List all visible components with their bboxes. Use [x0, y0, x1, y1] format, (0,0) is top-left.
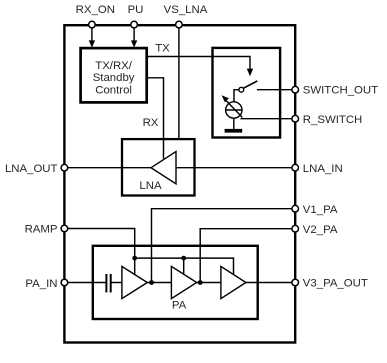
terminal SWITCH_OUT	[292, 86, 299, 93]
wire V2_PA to stage2 node	[200, 229, 295, 283]
svg-text:Standby: Standby	[93, 72, 135, 84]
svg-text:TX: TX	[155, 43, 170, 55]
junction dot bias bus stage2	[181, 256, 186, 261]
wire LNA input from LNA_IN	[176, 167, 295, 169]
PA amp stage 3	[221, 266, 246, 298]
terminal VS_LNA	[176, 21, 183, 28]
terminal PA_IN	[61, 279, 68, 286]
terminal LNA_OUT	[61, 164, 68, 171]
terminal RAMP	[61, 225, 68, 232]
terminal RX_ON	[89, 21, 96, 28]
svg-text:VS_LNA: VS_LNA	[164, 4, 208, 16]
svg-text:LNA_IN: LNA_IN	[303, 163, 343, 175]
wire to ground	[233, 117, 235, 130]
variable element chord	[226, 109, 242, 111]
wire switch pivot to variable element	[234, 90, 240, 102]
LNA box	[122, 139, 195, 195]
outer module boundary box	[64, 25, 295, 342]
terminal V1_PA	[292, 205, 299, 212]
wire RX: control box to LNA amp	[147, 78, 164, 159]
PA box	[93, 246, 258, 319]
PA amp stage 2	[171, 266, 196, 298]
svg-text:RX_ON: RX_ON	[76, 4, 115, 16]
svg-text:PA: PA	[172, 299, 187, 311]
junction dot bias bus stage1	[132, 256, 137, 261]
svg-text:SWITCH_OUT: SWITCH_OUT	[303, 85, 378, 97]
variable element circle	[226, 102, 242, 118]
wire LNA output to LNA_OUT	[64, 167, 151, 169]
svg-text:PA_IN: PA_IN	[25, 278, 57, 290]
terminal V3_PA_OUT	[292, 279, 299, 286]
svg-text:LNA_OUT: LNA_OUT	[5, 163, 58, 175]
svg-text:R_SWITCH: R_SWITCH	[303, 114, 362, 126]
junction dot stage2 output node	[198, 280, 203, 285]
terminal R_SWITCH	[292, 115, 299, 122]
wire fixed contact to SWITCH_OUT	[257, 89, 295, 91]
switch pivot contact	[239, 87, 244, 92]
LNA amp triangle	[151, 152, 176, 184]
junction dot stage1 output node	[149, 280, 154, 285]
terminal LNA_IN	[292, 164, 299, 171]
variable element arrow	[226, 101, 242, 118]
svg-text:LNA: LNA	[139, 180, 162, 192]
wire stage3 output to V3_PA_OUT	[246, 282, 295, 284]
wire stage1 to stage2	[147, 282, 171, 284]
wire TX: control box to switch box with down arrow	[147, 57, 250, 70]
ground	[225, 129, 243, 133]
switch blade	[243, 81, 257, 88]
wire PA_IN to coupling cap	[65, 282, 106, 284]
wire bias bus to PA stage 3	[135, 258, 234, 275]
svg-text:RX: RX	[143, 117, 159, 129]
control box U1 TX/RX/Standby	[81, 48, 147, 102]
svg-text:Control: Control	[95, 84, 132, 96]
svg-text:TX/RX/: TX/RX/	[95, 60, 133, 72]
terminal PU	[131, 21, 138, 28]
PA amp stage 1	[122, 266, 147, 298]
wire cap to stage 1	[111, 282, 122, 284]
switch box	[213, 48, 281, 138]
svg-text:V2_PA: V2_PA	[303, 224, 338, 236]
wire bias drop to PA stage 2	[183, 258, 185, 274]
wire V1_PA to stage1 node	[152, 209, 296, 283]
terminal V2_PA	[292, 225, 299, 232]
svg-text:V3_PA_OUT: V3_PA_OUT	[303, 278, 368, 290]
capacitor C1	[105, 274, 107, 292]
svg-text:V1_PA: V1_PA	[303, 204, 338, 216]
wire RX_ON into control box with arrow	[91, 25, 93, 41]
wire RAMP to PA stage 1 bias	[64, 229, 134, 275]
wire PU into control box with arrow	[133, 25, 135, 41]
wire stage2 to stage3	[197, 282, 221, 284]
wire VS_LNA drop to LNA box	[178, 25, 180, 140]
svg-text:RAMP: RAMP	[25, 224, 58, 236]
svg-text:PU: PU	[128, 4, 144, 16]
wire to R_SWITCH	[241, 118, 296, 120]
